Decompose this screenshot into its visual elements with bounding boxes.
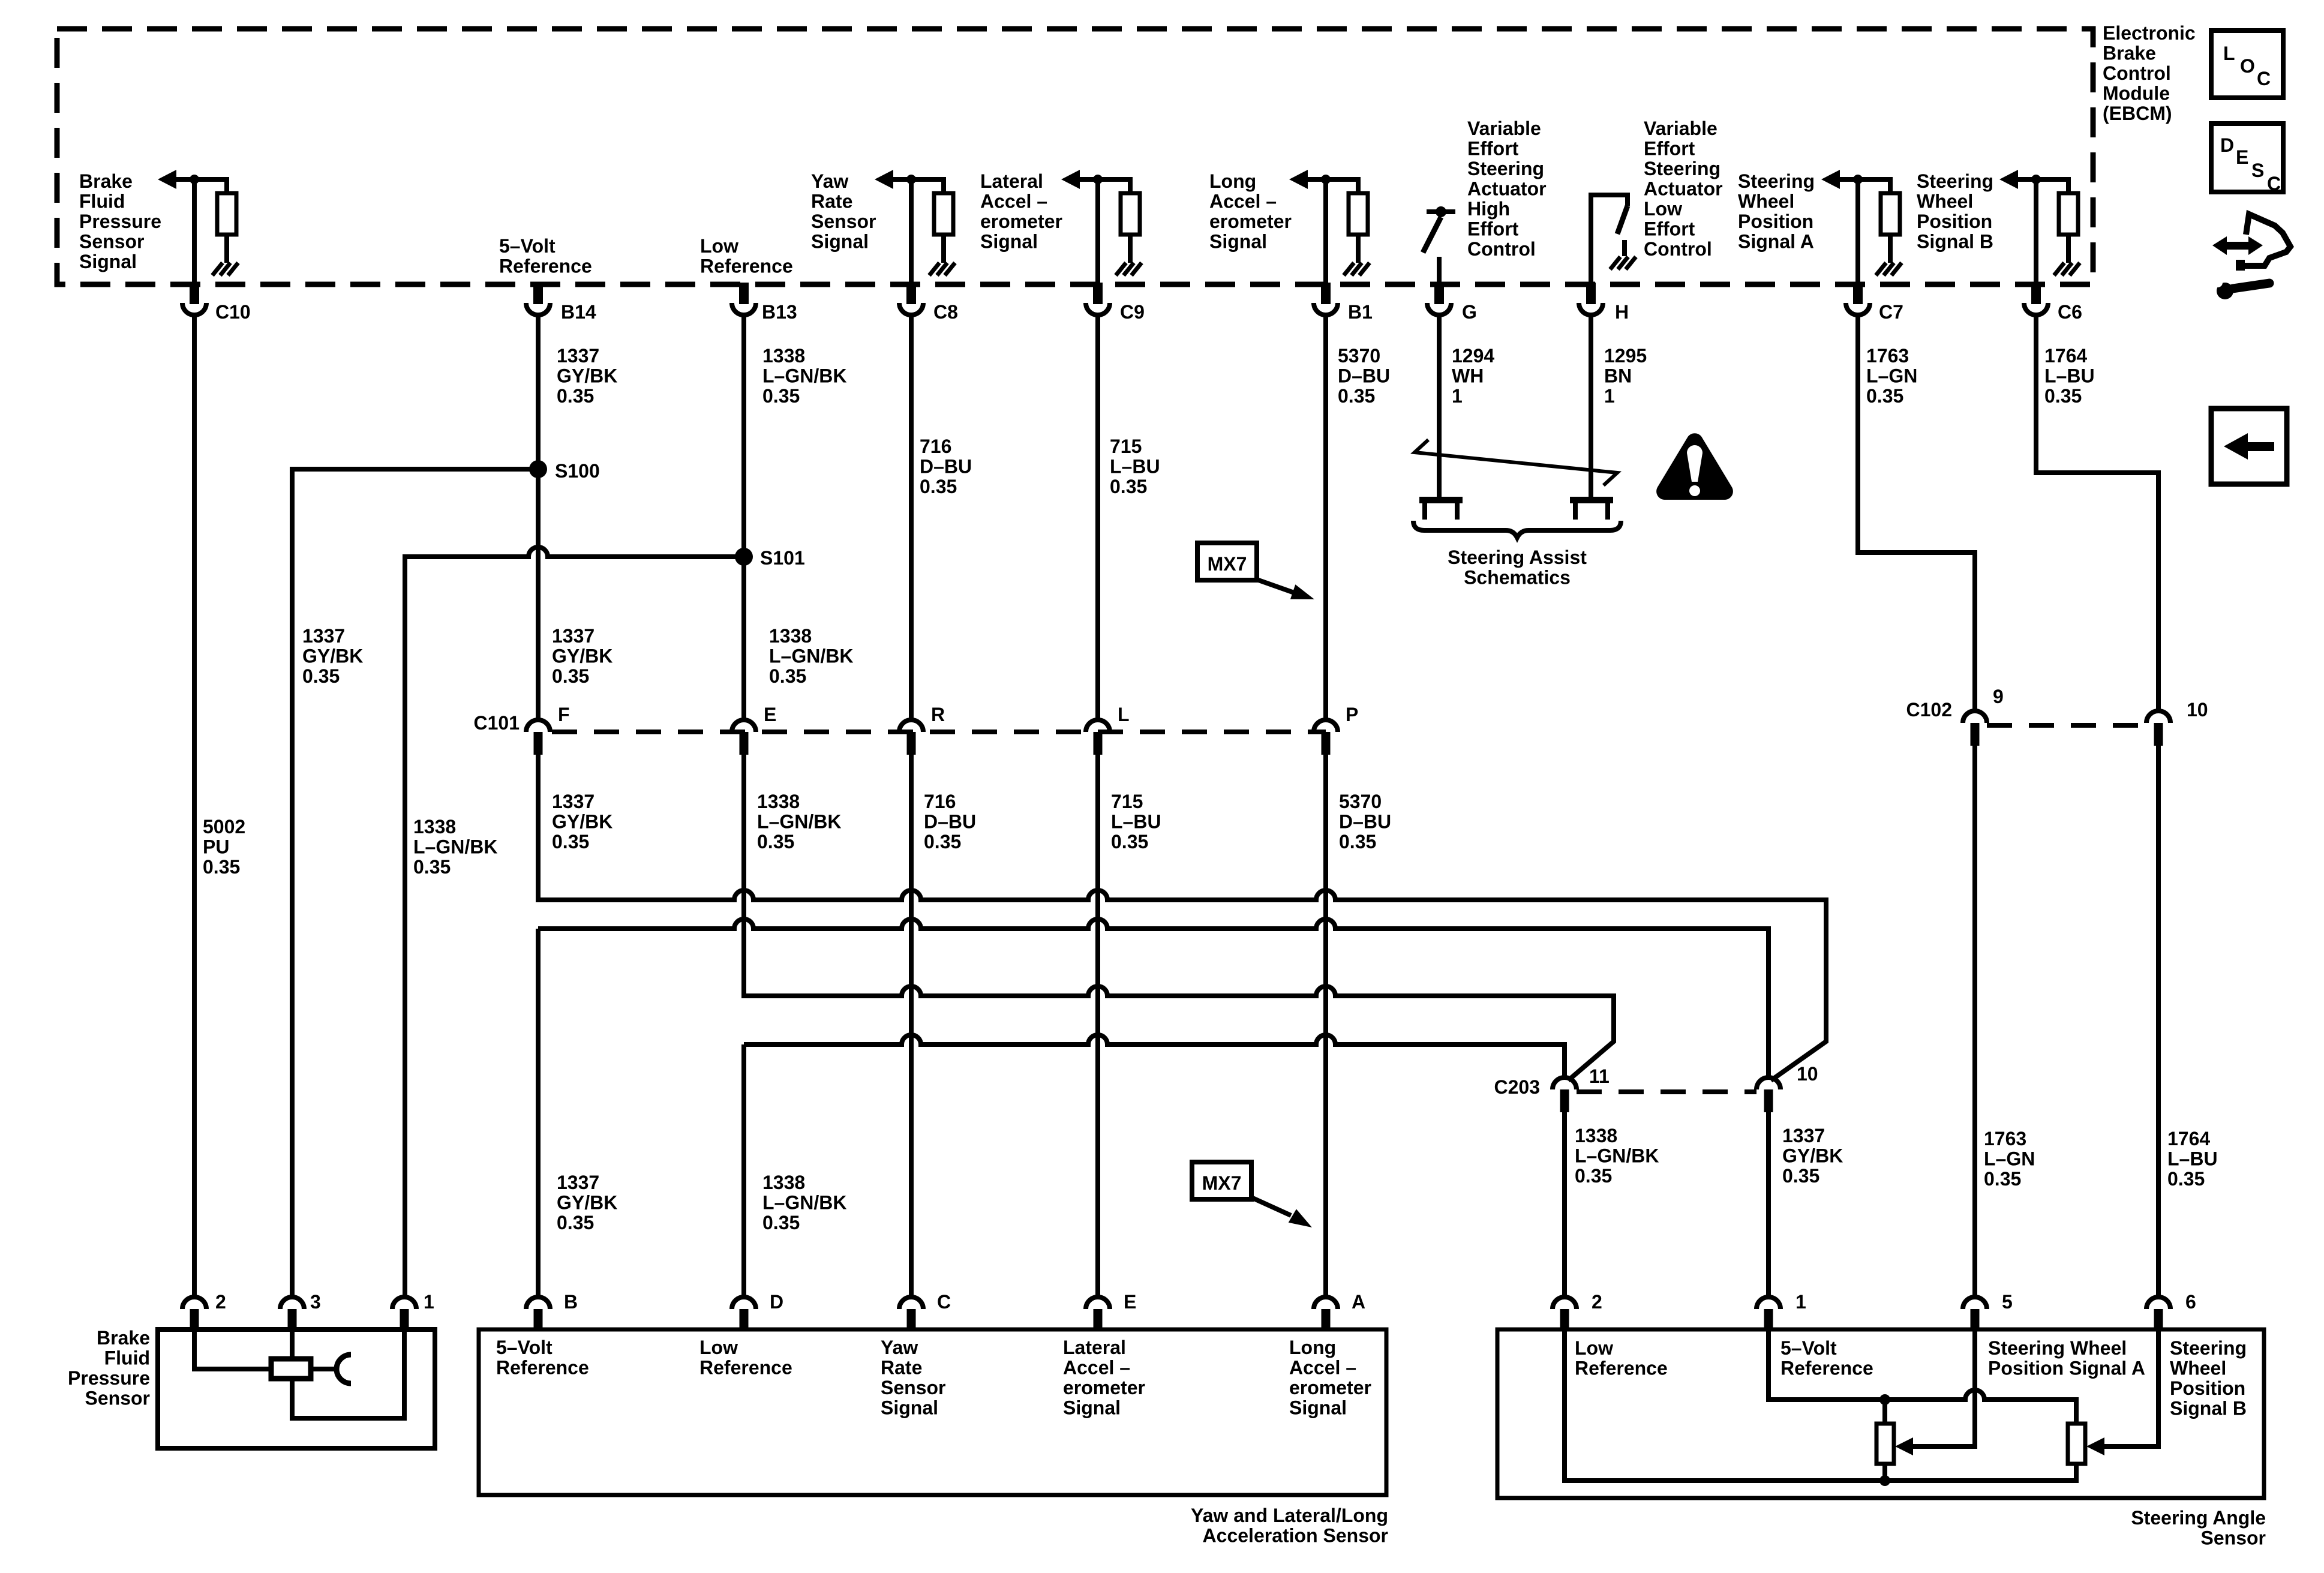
svg-text:1338: 1338 <box>762 345 805 367</box>
svg-text:Steering: Steering <box>1738 170 1815 192</box>
off-page connector clip for 1294 wire <box>1419 497 1463 520</box>
svg-text:10: 10 <box>2187 699 2208 721</box>
svg-text:C8: C8 <box>933 301 958 323</box>
svg-text:Position: Position <box>1738 211 1813 232</box>
brake fluid pressure sensor box <box>158 1329 435 1448</box>
svg-text:E: E <box>764 704 776 725</box>
svg-text:Long: Long <box>1289 1337 1336 1358</box>
steering angle sensor pin 6 <box>2146 1297 2170 1329</box>
svg-text:B: B <box>564 1291 578 1313</box>
brake sensor pin 3 <box>280 1297 304 1329</box>
label Steering Wheel Position Signal A (steering angle sensor) <box>1988 1337 2145 1379</box>
label wire 1337 GY/BK 0.35 above yaw sensor pin B <box>557 1172 617 1233</box>
left potentiometer lead top <box>1882 1400 1887 1424</box>
wire 1338 from C203 junction to yaw sensor pin D (line D with hops) <box>744 1035 1565 1297</box>
svg-text:0.35: 0.35 <box>1866 385 1903 407</box>
svg-text:1: 1 <box>1604 385 1615 407</box>
svg-text:Sensor: Sensor <box>811 211 876 232</box>
connector C101 dashed line <box>552 730 1326 734</box>
EBCM internal circuit: steering wheel position signal A <box>1821 170 1902 283</box>
pin label P (C101) <box>1346 704 1358 725</box>
svg-text:Yaw and Lateral/Long: Yaw and Lateral/Long <box>1191 1505 1388 1526</box>
svg-text:L–GN/BK: L–GN/BK <box>413 836 497 858</box>
svg-text:0.35: 0.35 <box>1984 1168 2021 1190</box>
label Steering Assist Schematics <box>1448 547 1587 589</box>
junction dot at left potentiometer bottom <box>1879 1475 1890 1486</box>
pin label F (C101) <box>558 704 570 725</box>
EBCM connector pin B13 <box>732 283 756 315</box>
EBCM internal circuit: yaw rate sensor signal <box>875 170 955 283</box>
label wire 1337 GY/BK 0.35 below C101 F <box>552 791 612 852</box>
wire 715 from C101 L to yaw sensor pin E <box>1095 755 1100 1297</box>
svg-text:GY/BK: GY/BK <box>557 1192 617 1214</box>
svg-text:GY/BK: GY/BK <box>552 811 612 833</box>
svg-text:0.35: 0.35 <box>302 665 340 687</box>
wire 1337 branch from S100 to brake sensor pin 3 <box>292 469 538 1297</box>
svg-text:Yaw: Yaw <box>811 170 848 192</box>
svg-text:Position: Position <box>1917 211 1992 232</box>
svg-text:Schematics: Schematics <box>1464 567 1571 589</box>
svg-text:Reference: Reference <box>699 1357 792 1379</box>
svg-text:Low: Low <box>700 235 738 257</box>
svg-text:Signal: Signal <box>811 231 869 253</box>
svg-text:5–Volt: 5–Volt <box>496 1337 553 1358</box>
connector C101 pin F <box>526 720 550 755</box>
brake sensor transducer arc symbol <box>337 1355 351 1383</box>
label 5-Volt Reference (EBCM B14) <box>499 235 592 277</box>
label wire 715 L-BU 0.35 below C101 L <box>1111 791 1161 852</box>
svg-text:C: C <box>2257 68 2271 89</box>
steering angle sensor box <box>1497 1329 2264 1498</box>
wire 1337 from C203 pin 10 to steering angle sensor pin 1 <box>1766 1112 1771 1297</box>
svg-text:Sensor: Sensor <box>2201 1527 2266 1549</box>
svg-text:2: 2 <box>1592 1291 1602 1313</box>
junction dot at left potentiometer top <box>1879 1394 1890 1405</box>
svg-text:Signal: Signal <box>79 251 137 272</box>
svg-text:Control: Control <box>1467 238 1536 260</box>
svg-text:MX7: MX7 <box>1202 1172 1242 1194</box>
svg-text:Signal: Signal <box>881 1397 938 1419</box>
svg-text:1764: 1764 <box>2044 345 2087 367</box>
pin label D (yaw sensor) <box>770 1291 783 1313</box>
svg-text:0.35: 0.35 <box>1575 1165 1612 1187</box>
svg-text:L: L <box>2223 43 2235 64</box>
wire 5370 from C101 P to yaw sensor pin A <box>1323 755 1328 1297</box>
svg-text:Reference: Reference <box>1780 1358 1873 1379</box>
svg-text:5002: 5002 <box>203 816 245 837</box>
svg-text:1337: 1337 <box>552 791 594 812</box>
label wire 1338 L-GN/BK 0.35 below B13 <box>762 345 846 407</box>
svg-text:GY/BK: GY/BK <box>557 365 617 387</box>
svg-text:C: C <box>2267 173 2281 194</box>
svg-text:GY/BK: GY/BK <box>302 646 363 667</box>
EBCM module dashed outline box <box>57 29 2093 284</box>
svg-text:716: 716 <box>920 436 951 457</box>
svg-text:1337: 1337 <box>557 1172 599 1193</box>
label Variable Effort Steering Actuator High Effort Control <box>1467 118 1547 260</box>
pin label 2 (brake sensor) <box>215 1291 226 1313</box>
label Steering Angle Sensor <box>2131 1507 2266 1549</box>
svg-text:0.35: 0.35 <box>1338 385 1375 407</box>
svg-text:Lateral: Lateral <box>980 170 1043 192</box>
svg-text:A: A <box>1352 1291 1365 1313</box>
yaw sensor pin D <box>732 1297 756 1329</box>
svg-text:0.35: 0.35 <box>924 831 961 852</box>
svg-text:S100: S100 <box>555 460 600 482</box>
svg-text:L–GN: L–GN <box>1984 1148 2035 1170</box>
svg-text:C101: C101 <box>474 712 520 734</box>
callout MX7 upper (points to 5370 wire) <box>1197 543 1314 599</box>
left potentiometer lead bottom <box>1882 1464 1887 1481</box>
svg-text:L–BU: L–BU <box>2167 1148 2218 1170</box>
brake sensor pin 1 <box>392 1297 416 1329</box>
connector C102 dashed line <box>1987 723 2146 728</box>
svg-text:Module: Module <box>2103 83 2170 104</box>
svg-text:Yaw: Yaw <box>881 1337 918 1358</box>
svg-text:Low: Low <box>1644 198 1682 220</box>
label wire 1337 GY/BK 0.35 on S100 branch <box>302 625 363 687</box>
svg-text:5–Volt: 5–Volt <box>499 235 556 257</box>
label wire 716 D-BU 0.35 below C101 R <box>924 791 976 852</box>
svg-text:L–GN/BK: L–GN/BK <box>769 646 853 667</box>
svg-text:erometer: erometer <box>1289 1377 1371 1398</box>
svg-text:O: O <box>2240 55 2255 77</box>
svg-text:Wheel: Wheel <box>2170 1358 2226 1379</box>
pin label B14 <box>561 301 596 323</box>
steering sensor internal wire pin2 to potentiometer bottoms <box>1565 1329 2076 1481</box>
steering sensor potentiometer B <box>2068 1424 2085 1464</box>
svg-text:9: 9 <box>1993 686 2004 707</box>
svg-text:C203: C203 <box>1494 1076 1541 1098</box>
svg-text:Accel –: Accel – <box>980 191 1047 212</box>
brake sensor internal wiring pin2 to resistor <box>194 1329 271 1369</box>
EBCM connector pin C8 <box>899 283 923 315</box>
pin label 10 (C203) <box>1797 1063 1818 1085</box>
label Yaw Rate Sensor Signal <box>811 170 876 253</box>
label Yaw Rate Sensor Signal (yaw sensor) <box>881 1337 945 1419</box>
pin label C7 <box>1879 301 1903 323</box>
svg-text:1338: 1338 <box>762 1172 805 1193</box>
EBCM connector pin C10 <box>182 283 206 315</box>
brake sensor internal wiring pin3 to pin1 <box>292 1329 404 1418</box>
wire 5370 D-BU from B1 to C101 pin P <box>1323 315 1328 720</box>
icon double arrow with wrench <box>2212 214 2290 299</box>
svg-text:Accel –: Accel – <box>1063 1357 1130 1379</box>
brake sensor internal wire to transducer <box>311 1367 335 1371</box>
EBCM connector pin G <box>1427 283 1451 315</box>
svg-text:GY/BK: GY/BK <box>552 646 612 667</box>
pin label 1 (steering angle sensor) <box>1795 1291 1806 1313</box>
steering sensor wiper A from pin 5 <box>1895 1329 1975 1455</box>
wire 1337 from C203 junction to yaw sensor pin B (line B with hops) <box>538 919 1768 1297</box>
svg-text:Rate: Rate <box>811 191 852 212</box>
svg-text:Sensor: Sensor <box>881 1377 945 1398</box>
svg-text:C102: C102 <box>1906 699 1953 721</box>
svg-text:Actuator: Actuator <box>1467 178 1547 200</box>
icon LOC box <box>2211 31 2283 98</box>
svg-text:0.35: 0.35 <box>2167 1168 2205 1190</box>
connector C101 pin E <box>732 720 756 755</box>
svg-text:0.35: 0.35 <box>2044 385 2082 407</box>
wire 715 L-BU from C9 to C101 pin L <box>1095 315 1100 720</box>
svg-text:Low: Low <box>1575 1337 1613 1359</box>
svg-text:D–BU: D–BU <box>924 811 976 833</box>
svg-text:G: G <box>1462 301 1477 323</box>
svg-text:1294: 1294 <box>1452 345 1494 367</box>
svg-text:1337: 1337 <box>557 345 599 367</box>
label Long Accelerometer Signal (yaw sensor) <box>1289 1337 1371 1419</box>
pin label B1 <box>1348 301 1373 323</box>
switch: variable effort steering actuator low effort control (pin H) <box>1591 195 1628 283</box>
pin label L (C101) <box>1118 704 1130 725</box>
pin label B (yaw sensor) <box>564 1291 578 1313</box>
svg-text:11: 11 <box>1589 1065 1610 1087</box>
svg-text:C9: C9 <box>1120 301 1145 323</box>
svg-text:C7: C7 <box>1879 301 1903 323</box>
svg-text:Sensor: Sensor <box>79 231 144 253</box>
pin label C (yaw sensor) <box>937 1291 951 1313</box>
svg-text:erometer: erometer <box>980 211 1062 232</box>
svg-text:Low: Low <box>699 1337 738 1358</box>
label wire 1338 L-GN/BK 0.35 above yaw sensor pin D <box>762 1172 846 1233</box>
svg-text:(EBCM): (EBCM) <box>2103 103 2172 124</box>
svg-text:Position: Position <box>2170 1377 2245 1399</box>
label wire 1338 L-GN/BK 0.35 below C203 pin 11 <box>1575 1125 1659 1187</box>
label wire 5370 D-BU 0.35 <box>1338 345 1390 407</box>
EBCM connector pin H <box>1579 283 1603 315</box>
svg-text:D–BU: D–BU <box>1339 811 1391 833</box>
svg-text:Signal: Signal <box>1063 1397 1121 1419</box>
svg-text:Variable: Variable <box>1467 118 1541 139</box>
wire 1764 from C102 pin 10 to steering angle sensor pin 6 <box>2156 746 2161 1297</box>
svg-text:C: C <box>937 1291 951 1313</box>
svg-text:L: L <box>1118 704 1130 725</box>
connector C203 dashed line <box>1577 1089 1756 1094</box>
svg-text:1337: 1337 <box>302 625 345 647</box>
pin label 10 (C102) <box>2187 699 2208 721</box>
label Brake Fluid Pressure Sensor Signal <box>79 170 161 272</box>
label Steering Wheel Position Signal B <box>1917 170 1993 253</box>
svg-text:GY/BK: GY/BK <box>1782 1145 1843 1167</box>
EBCM internal circuit: long accelerometer signal <box>1289 170 1370 283</box>
off-page connector clip for 1295 wire <box>1570 497 1613 520</box>
label Steering Wheel Position Signal A <box>1738 170 1815 253</box>
svg-text:1338: 1338 <box>413 816 456 837</box>
label Low Reference (yaw sensor) <box>699 1337 792 1379</box>
ground for low effort control switch <box>1610 257 1636 269</box>
svg-text:0.35: 0.35 <box>557 1212 594 1233</box>
label C203 <box>1494 1076 1541 1098</box>
svg-text:Signal: Signal <box>1289 1397 1347 1419</box>
svg-text:Lateral: Lateral <box>1063 1337 1126 1358</box>
svg-text:Accel –: Accel – <box>1209 191 1277 212</box>
callout MX7 lower (points to 5370 wire) <box>1192 1162 1312 1227</box>
label wire 1764 L-BU 0.35 below C102 pin 10 <box>2167 1128 2218 1190</box>
pin label 11 (C203) <box>1589 1065 1610 1087</box>
svg-text:1338: 1338 <box>757 791 800 812</box>
pin label C10 <box>215 301 251 323</box>
svg-text:1764: 1764 <box>2167 1128 2210 1149</box>
svg-text:D–BU: D–BU <box>920 456 972 478</box>
label wire 1337 GY/BK 0.35 below B14 <box>557 345 617 407</box>
wire 1294 WH from G to steering assist <box>1437 315 1442 498</box>
svg-text:Position Signal A: Position Signal A <box>1988 1358 2145 1379</box>
pin label G <box>1462 301 1477 323</box>
svg-text:Effort: Effort <box>1467 138 1519 160</box>
svg-text:WH: WH <box>1452 365 1484 387</box>
wire 1764 L-BU from C6 to C102 pin 10 <box>2036 315 2158 711</box>
svg-text:Sensor: Sensor <box>85 1388 150 1409</box>
svg-text:Reference: Reference <box>700 256 793 277</box>
svg-text:Rate: Rate <box>881 1357 922 1379</box>
svg-text:P: P <box>1346 704 1358 725</box>
svg-text:Wheel: Wheel <box>1917 191 1973 212</box>
svg-text:Reference: Reference <box>496 1357 589 1379</box>
svg-text:0.35: 0.35 <box>1782 1165 1819 1187</box>
switch: variable effort steering actuator high effort control (pin G) <box>1423 206 1455 283</box>
svg-text:Brake: Brake <box>2103 43 2156 64</box>
svg-text:715: 715 <box>1111 791 1143 812</box>
splice S101 <box>735 548 753 566</box>
svg-text:Fluid: Fluid <box>79 191 125 212</box>
svg-text:3: 3 <box>310 1291 321 1313</box>
wire 5002 PU from C10 to brake fluid pressure sensor pin 2 <box>192 315 197 1297</box>
svg-text:Effort: Effort <box>1644 138 1695 160</box>
svg-text:1338: 1338 <box>1575 1125 1617 1146</box>
wire 1295 BN from H to steering assist <box>1589 315 1593 498</box>
pin label 6 (steering angle sensor) <box>2185 1291 2196 1313</box>
svg-text:Steering: Steering <box>1644 158 1721 179</box>
brake sensor pin 2 <box>182 1297 206 1329</box>
svg-text:L–BU: L–BU <box>1110 456 1160 478</box>
pin label 3 (brake sensor) <box>310 1291 321 1313</box>
svg-text:L–GN/BK: L–GN/BK <box>1575 1145 1659 1167</box>
svg-text:Steering: Steering <box>2170 1337 2247 1359</box>
label Yaw and Lateral/Long Acceleration Sensor <box>1191 1505 1388 1547</box>
svg-text:erometer: erometer <box>1063 1377 1145 1398</box>
svg-text:Electronic: Electronic <box>2103 22 2196 44</box>
label 5-Volt Reference (steering angle sensor) <box>1780 1337 1873 1379</box>
label Steering Wheel Position Signal B (steering angle sensor) <box>2170 1337 2247 1419</box>
svg-text:Effort: Effort <box>1644 218 1695 240</box>
svg-text:0.35: 0.35 <box>552 665 589 687</box>
svg-text:L–GN: L–GN <box>1866 365 1917 387</box>
svg-text:L–GN/BK: L–GN/BK <box>762 1192 846 1214</box>
connector C203 pin 10 <box>1756 1077 1780 1112</box>
svg-text:Actuator: Actuator <box>1644 178 1723 200</box>
label Lateral Accelerometer Signal (yaw sensor) <box>1063 1337 1145 1419</box>
svg-text:0.35: 0.35 <box>552 831 589 852</box>
svg-text:Steering Wheel: Steering Wheel <box>1988 1337 2127 1359</box>
svg-text:L–GN/BK: L–GN/BK <box>762 365 846 387</box>
svg-text:0.35: 0.35 <box>757 831 794 852</box>
yaw sensor pin C <box>899 1297 923 1329</box>
EBCM connector pin C6 <box>2024 283 2048 315</box>
svg-text:0.35: 0.35 <box>920 476 957 497</box>
svg-text:B1: B1 <box>1348 301 1373 323</box>
svg-text:0.35: 0.35 <box>1110 476 1147 497</box>
svg-text:0.35: 0.35 <box>1339 831 1376 852</box>
label Variable Effort Steering Actuator Low Effort Control <box>1644 118 1723 260</box>
yaw sensor pin B <box>526 1297 550 1329</box>
svg-text:0.35: 0.35 <box>762 385 800 407</box>
svg-text:F: F <box>558 704 570 725</box>
label 5-Volt Reference (yaw sensor) <box>496 1337 589 1379</box>
svg-text:Pressure: Pressure <box>79 211 161 232</box>
label wire 715 L-BU 0.35 <box>1110 436 1160 497</box>
svg-text:Accel –: Accel – <box>1289 1357 1356 1379</box>
svg-text:Pressure: Pressure <box>68 1367 150 1389</box>
svg-text:5370: 5370 <box>1339 791 1382 812</box>
EBCM internal circuit: steering wheel position signal B <box>1999 170 2080 283</box>
label wire 1337 GY/BK 0.35 above C101 F <box>552 625 612 687</box>
svg-text:B14: B14 <box>561 301 596 323</box>
svg-text:C10: C10 <box>215 301 251 323</box>
svg-text:erometer: erometer <box>1209 211 1292 232</box>
crossing slash mark between steering assist wires <box>1415 440 1617 485</box>
svg-text:C6: C6 <box>2058 301 2082 323</box>
svg-text:H: H <box>1615 301 1629 323</box>
svg-text:715: 715 <box>1110 436 1142 457</box>
wire 1337 from C101 F to C203 pin 10 (line A with hops) <box>538 755 1826 1080</box>
svg-text:S: S <box>2251 160 2264 181</box>
svg-text:0.35: 0.35 <box>413 856 451 878</box>
connector C101 pin R <box>899 720 923 755</box>
svg-text:Reference: Reference <box>1575 1358 1668 1379</box>
svg-text:Control: Control <box>1644 238 1712 260</box>
label wire 716 D-BU 0.35 <box>920 436 972 497</box>
svg-text:PU: PU <box>203 836 229 858</box>
pin label B13 <box>762 301 797 323</box>
svg-text:6: 6 <box>2185 1291 2196 1313</box>
svg-text:Long: Long <box>1209 170 1256 192</box>
svg-text:1337: 1337 <box>1782 1125 1825 1146</box>
EBCM module name label <box>2103 22 2196 124</box>
svg-text:1: 1 <box>1795 1291 1806 1313</box>
connector C101 pin P <box>1314 720 1338 755</box>
svg-text:S101: S101 <box>760 547 805 569</box>
pin label A (yaw sensor) <box>1352 1291 1365 1313</box>
connector C203 pin 11 <box>1553 1077 1577 1112</box>
wire 716 from C101 R to yaw sensor pin C <box>909 755 914 1297</box>
svg-text:5370: 5370 <box>1338 345 1380 367</box>
wire 1338 L-GN/BK from B13 to C101 pin E <box>741 315 746 720</box>
label wire 1338 L-GN/BK 0.35 on S101 branch <box>413 816 497 878</box>
wire 1763 L-GN from C7 to C102 pin 9 <box>1858 315 1975 711</box>
svg-text:Wheel: Wheel <box>1738 191 1794 212</box>
yaw sensor pin A <box>1314 1297 1338 1329</box>
svg-text:1337: 1337 <box>552 625 594 647</box>
icon left arrow box <box>2211 409 2287 484</box>
svg-text:BN: BN <box>1604 365 1632 387</box>
label C102 <box>1906 699 1953 721</box>
label wire 1763 L-GN 0.35 below C7 <box>1866 345 1917 407</box>
label Low Reference (EBCM B13) <box>700 235 793 277</box>
label wire 1763 L-GN 0.35 below C102 pin 9 <box>1984 1128 2035 1190</box>
svg-text:L–GN/BK: L–GN/BK <box>757 811 841 833</box>
label Lateral Accelerometer Signal <box>980 170 1062 253</box>
svg-text:L–BU: L–BU <box>2044 365 2095 387</box>
svg-text:Reference: Reference <box>499 256 592 277</box>
svg-text:Signal A: Signal A <box>1738 231 1814 253</box>
svg-text:1338: 1338 <box>769 625 812 647</box>
steering angle sensor pin 2 <box>1553 1297 1577 1329</box>
svg-text:D: D <box>2220 134 2234 156</box>
pin label C9 <box>1120 301 1145 323</box>
EBCM connector pin C9 <box>1086 283 1110 315</box>
wire 1338 from C101 E to C203 pin 11 (line C with hops) <box>744 755 1614 1080</box>
svg-text:0.35: 0.35 <box>769 665 806 687</box>
